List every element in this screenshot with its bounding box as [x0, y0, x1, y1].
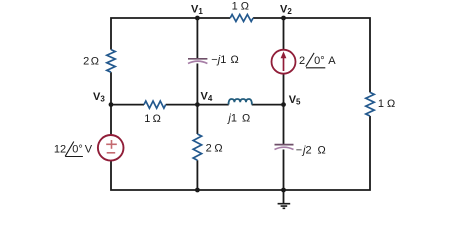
svg-text:1: 1 [144, 113, 150, 125]
svg-text:V3: V3 [93, 91, 105, 104]
svg-text:Ω: Ω [231, 54, 239, 66]
svg-text:2: 2 [83, 56, 89, 68]
svg-text:V1: V1 [191, 3, 203, 16]
svg-text:V2: V2 [280, 3, 292, 16]
svg-text:A: A [328, 55, 336, 67]
svg-text:V: V [85, 144, 93, 156]
svg-text:2: 2 [299, 55, 305, 67]
svg-text:V5: V5 [289, 94, 301, 107]
svg-text:1: 1 [378, 98, 384, 110]
svg-text:Ω: Ω [318, 144, 326, 156]
svg-text:12: 12 [54, 144, 66, 156]
svg-text:0°: 0° [314, 55, 325, 67]
svg-text:−j1: −j1 [211, 54, 226, 66]
svg-text:2: 2 [206, 143, 212, 155]
svg-text:1: 1 [232, 1, 238, 13]
svg-text:j1: j1 [226, 112, 237, 124]
svg-text:j2: j2 [301, 144, 312, 156]
svg-text:V4: V4 [201, 91, 213, 104]
svg-text:Ω: Ω [242, 112, 250, 124]
svg-text:Ω: Ω [241, 1, 249, 13]
svg-text:Ω: Ω [91, 56, 99, 68]
svg-text:Ω: Ω [214, 143, 222, 155]
svg-text:Ω: Ω [153, 113, 161, 125]
svg-text:−: − [296, 144, 302, 156]
svg-text:Ω: Ω [387, 98, 395, 110]
svg-text:0°: 0° [72, 144, 83, 156]
